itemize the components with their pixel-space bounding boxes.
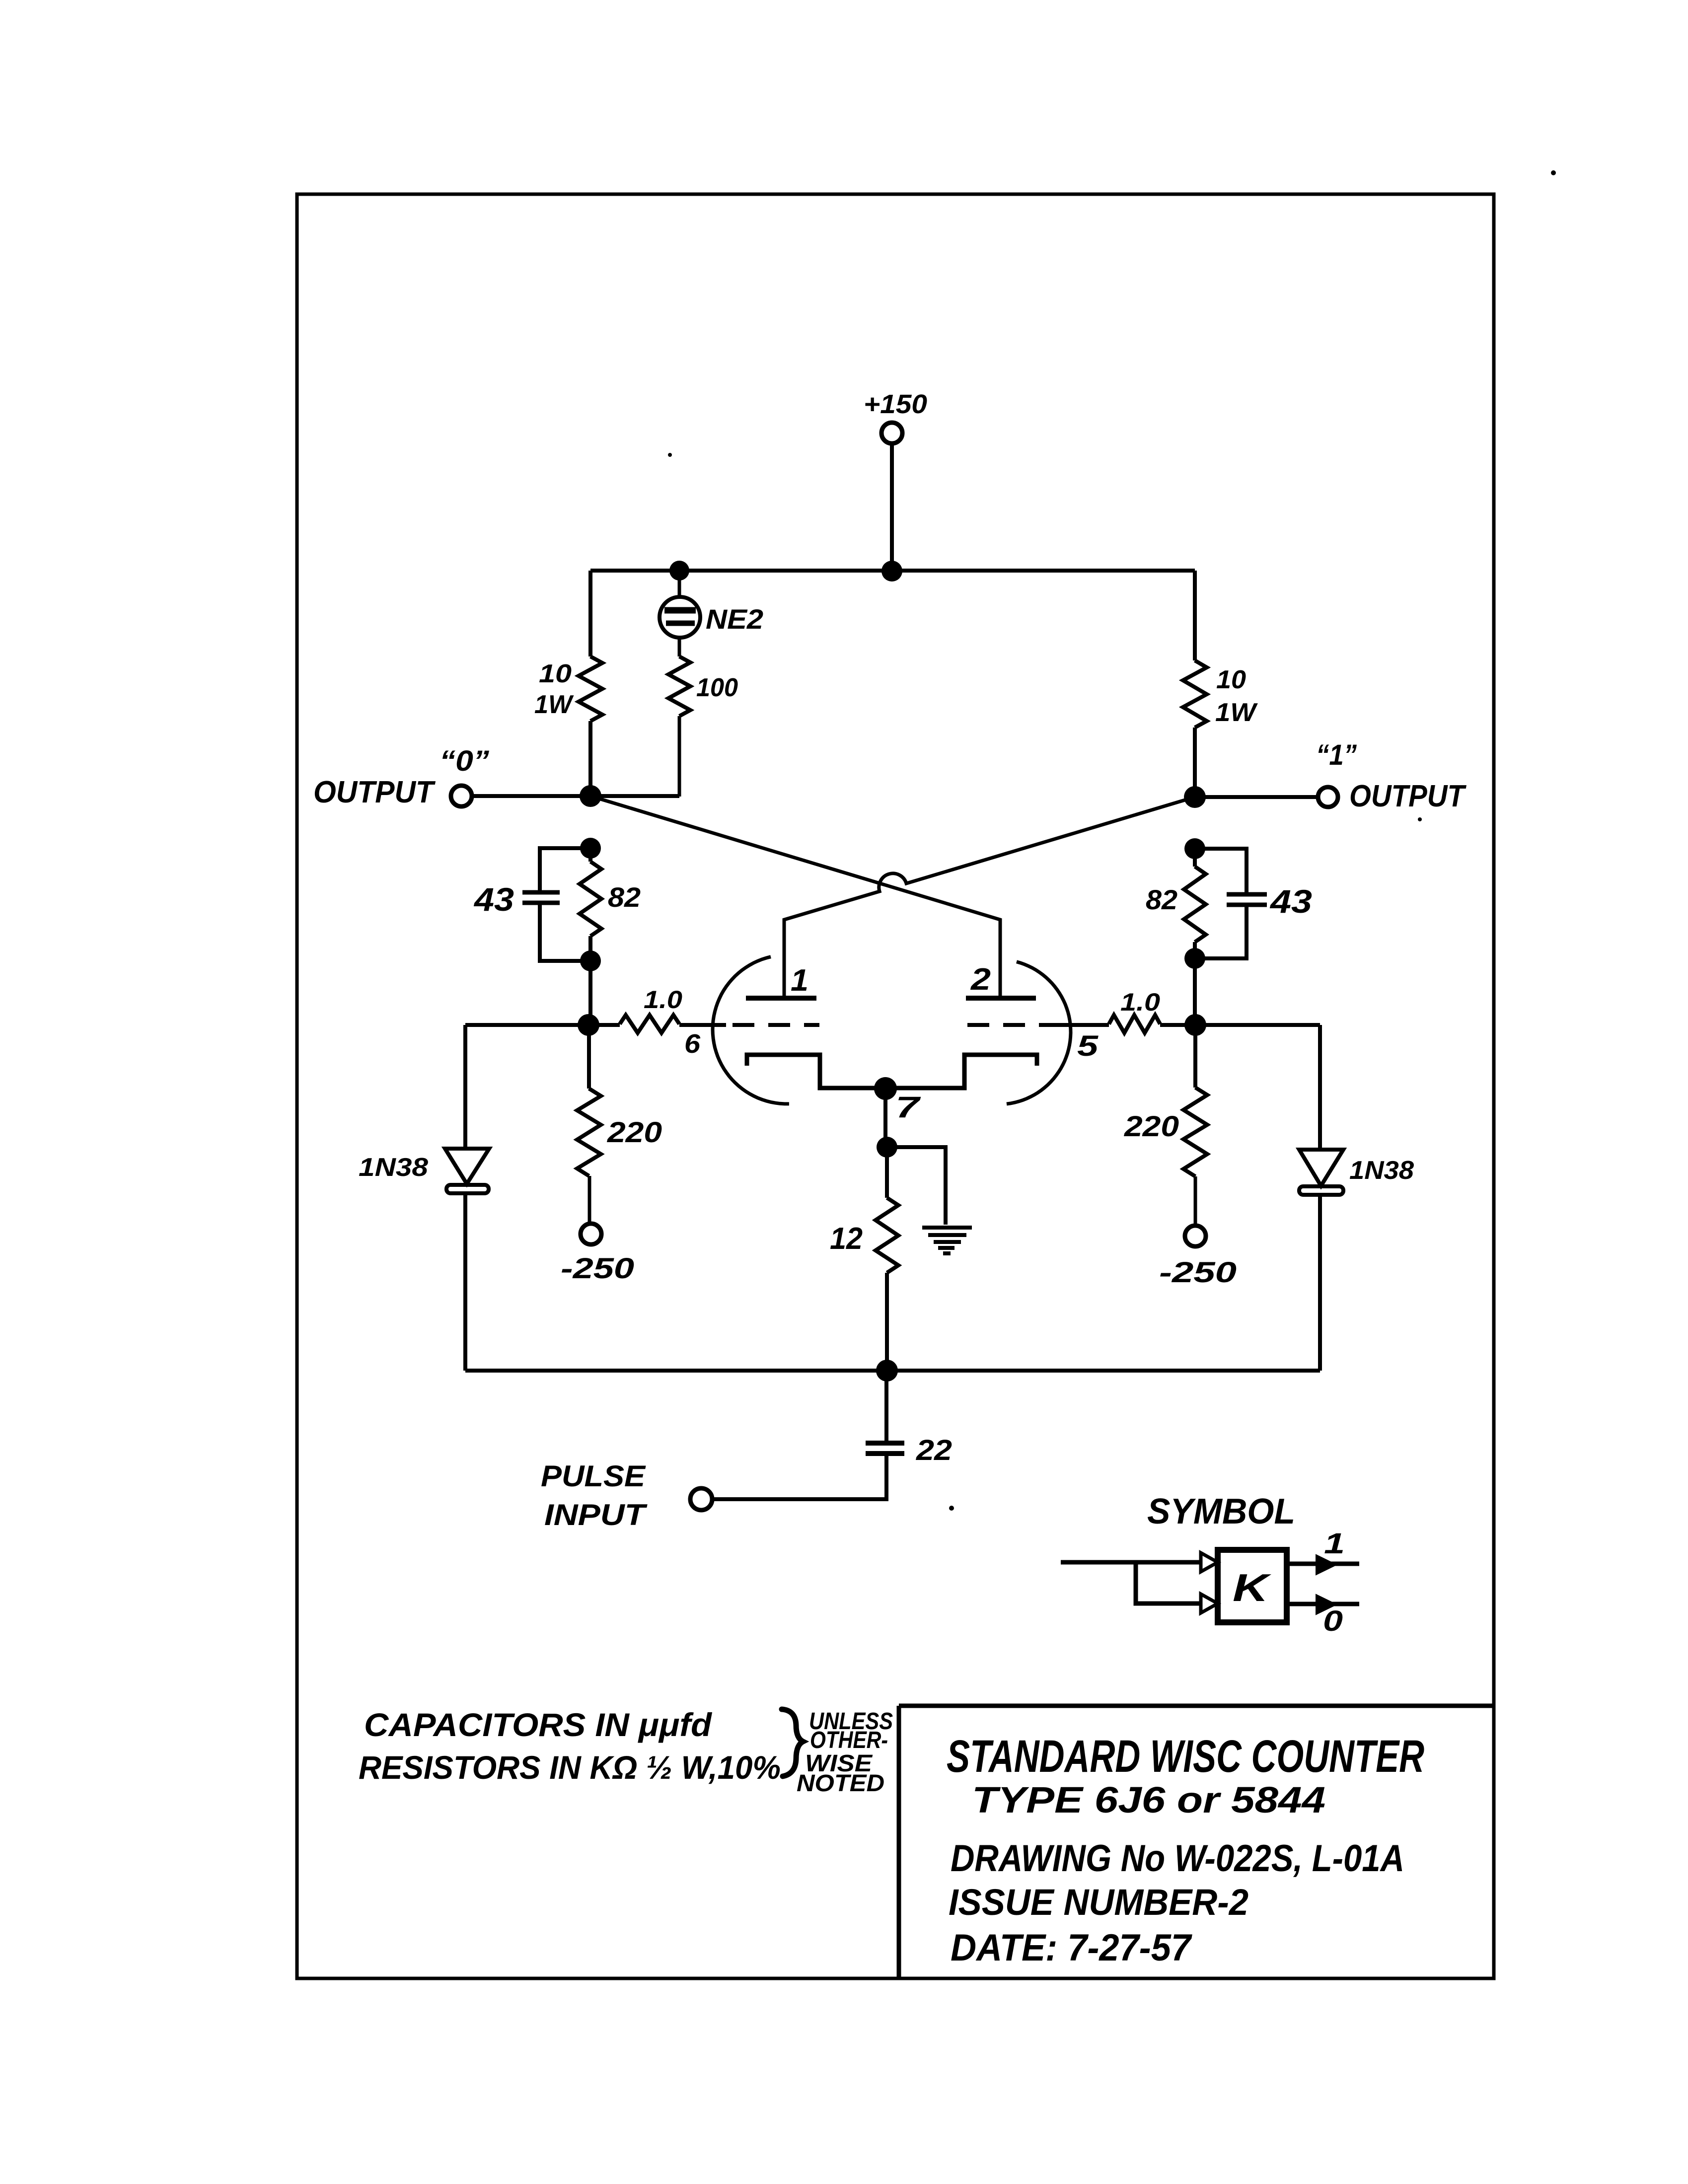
wire left grid stub (588, 1023, 620, 1027)
junction right divider bottom (1184, 948, 1205, 969)
wire NE2 lamp to resistor (678, 637, 681, 656)
svg-text:5: 5 (1077, 1030, 1099, 1062)
wire left 82 stub bottom (588, 936, 592, 961)
wire left 82 stub top (588, 848, 592, 862)
svg-text:NOTED: NOTED (797, 1770, 884, 1797)
ink speck 1 (1551, 170, 1556, 175)
wire left cap bracket (540, 848, 590, 961)
wire left 220 lead (587, 1025, 591, 1089)
svg-text:TYPE 6J6 or 5844: TYPE 6J6 or 5844 (972, 1779, 1325, 1820)
ink speck 4 (949, 1506, 954, 1511)
neon lamp NE2 (660, 597, 700, 638)
svg-text:DRAWING No W-022S, L-01A: DRAWING No W-022S, L-01A (951, 1837, 1404, 1880)
wire left grid lead to tube (679, 1023, 726, 1027)
wire cross-couple 0-to-plate2 (590, 796, 1000, 997)
svg-text:43: 43 (1269, 883, 1312, 920)
junction bottom bus (876, 1360, 898, 1382)
svg-text:OUTPUT: OUTPUT (313, 775, 436, 809)
resistor R 82 right (1184, 867, 1206, 942)
capacitor C 43 left (522, 892, 560, 903)
svg-text:SYMBOL: SYMBOL (1147, 1492, 1295, 1531)
terminal -250 left (581, 1224, 601, 1244)
junction +150 bus (881, 561, 902, 582)
svg-text:OUTPUT: OUTPUT (1349, 779, 1467, 813)
svg-text:82: 82 (1146, 884, 1177, 915)
wire right 82 stub top (1193, 849, 1197, 867)
wire right grid stub (1160, 1023, 1195, 1027)
svg-text:1.0: 1.0 (1120, 988, 1160, 1016)
wire left grid to diode (465, 1023, 588, 1027)
svg-text:100: 100 (696, 673, 738, 702)
svg-text:CAPACITORS IN μμfd: CAPACITORS IN μμfd (364, 1706, 713, 1743)
symbol output wire 0 (1287, 1602, 1359, 1606)
drawing border frame (297, 194, 1494, 1978)
wire 12 lead top (885, 1147, 889, 1198)
ink speck 2 (668, 453, 672, 457)
wire right rail upper (1193, 571, 1197, 660)
symbol arrow 1 (1316, 1555, 1336, 1575)
resistor R 220 right (1183, 1088, 1207, 1176)
symbol output wire 1 (1287, 1562, 1359, 1566)
terminal OUTPUT 0 (451, 786, 472, 806)
svg-text:“1”: “1” (1316, 739, 1357, 771)
wire left divider to grid (588, 961, 592, 1025)
symbol input triangle upper (1201, 1553, 1218, 1572)
wire left rail upper (588, 571, 592, 656)
svg-text:220: 220 (607, 1116, 662, 1149)
wire +150 lead (890, 443, 894, 571)
svg-text:1: 1 (1324, 1528, 1345, 1560)
svg-text:INPUT: INPUT (544, 1498, 648, 1531)
svg-text:10: 10 (1216, 665, 1246, 694)
terminal PULSE INPUT (690, 1488, 712, 1510)
svg-text:1W: 1W (534, 690, 574, 719)
svg-text:STANDARD WISC COUNTER: STANDARD WISC COUNTER (947, 1731, 1424, 1782)
svg-text:1W: 1W (1215, 698, 1258, 727)
plate 1 bar (746, 996, 816, 1001)
grid 2 dashed (967, 1023, 1054, 1027)
wire right rail to output node (1193, 728, 1197, 797)
plate 2 bar (966, 996, 1036, 1001)
resistor R 12 (876, 1198, 898, 1273)
svg-text:6: 6 (684, 1029, 701, 1059)
wire output 1 line (1195, 795, 1318, 799)
junction right divider top (1184, 838, 1205, 859)
junction left divider top (580, 838, 601, 859)
svg-text:“0”: “0” (440, 745, 489, 777)
wire right 220 lead (1193, 1025, 1197, 1088)
junction right grid node (1184, 1014, 1206, 1036)
wire to ground (887, 1147, 946, 1225)
svg-text:PULSE: PULSE (541, 1459, 646, 1493)
terminal +150 (881, 423, 902, 443)
wire pin7 down (883, 1089, 887, 1147)
wire top bus (590, 569, 1195, 573)
svg-text:220: 220 (1124, 1110, 1179, 1143)
resistor R 10 1W right (1183, 660, 1207, 728)
wire left rail to output node (588, 721, 592, 796)
svg-text:-250: -250 (1159, 1256, 1237, 1289)
svg-text:7: 7 (895, 1091, 921, 1124)
symbol input wire (1061, 1562, 1201, 1603)
junction cathode branch (877, 1137, 897, 1158)
wire right cap bracket (1195, 849, 1247, 958)
svg-text:43: 43 (473, 881, 514, 918)
junction NE2 top bus (669, 561, 689, 581)
junction left grid node (578, 1014, 599, 1036)
resistor R 100 (668, 656, 690, 716)
wire left -250 lead (588, 1176, 591, 1224)
symbol arrow 0 (1316, 1595, 1336, 1614)
wire pulse cap lead (884, 1371, 888, 1443)
resistor R 10 1W left (579, 656, 602, 721)
wire right divider to grid (1193, 958, 1197, 1025)
svg-text:1N38: 1N38 (1349, 1156, 1414, 1185)
wire 12 lead bottom (885, 1273, 889, 1371)
diode 1N38 left (445, 1025, 489, 1371)
resistor R 220 left (577, 1089, 601, 1176)
resistor R 82 left (580, 862, 601, 936)
cathode structure (747, 1055, 1037, 1088)
svg-text:10: 10 (539, 659, 572, 688)
wire cross-couple 1-to-plate1 with hop (784, 797, 1195, 997)
svg-text:K: K (1233, 1566, 1272, 1609)
svg-text:22: 22 (916, 1434, 952, 1466)
note brace (782, 1709, 803, 1776)
svg-text:DATE: 7-27-57: DATE: 7-27-57 (951, 1927, 1193, 1969)
wire right -250 lead (1194, 1176, 1197, 1226)
wire output 0 line (472, 794, 679, 798)
tube envelope right arc (1007, 962, 1071, 1104)
ground symbol (922, 1228, 972, 1253)
svg-text:0: 0 (1323, 1605, 1343, 1637)
tube envelope left arc (713, 957, 789, 1104)
svg-text:2: 2 (970, 962, 991, 997)
symbol box K (1218, 1550, 1287, 1622)
wire pulse input lead (713, 1454, 886, 1499)
junction cathode pin 7 (874, 1077, 897, 1100)
svg-text:1N38: 1N38 (359, 1153, 428, 1182)
svg-text:82: 82 (608, 881, 641, 913)
capacitor C 43 right (1227, 894, 1267, 905)
resistor R 1.0 left (620, 1015, 679, 1033)
junction output 1 node (1184, 786, 1206, 808)
wire right grid lead to tube (1048, 1023, 1109, 1027)
svg-text:+150: +150 (864, 389, 927, 419)
capacitor C 22 (866, 1443, 904, 1454)
wire bottom bus (465, 1369, 1320, 1373)
terminal OUTPUT 1 (1318, 787, 1338, 807)
diode 1N38 right (1299, 1025, 1343, 1371)
wire NE2 branch down (678, 716, 681, 797)
ink speck 3 (1418, 817, 1422, 821)
svg-text:NE2: NE2 (706, 603, 763, 635)
wire NE2 top lead (678, 571, 681, 599)
svg-text:1: 1 (791, 963, 808, 998)
svg-text:ISSUE NUMBER-2: ISSUE NUMBER-2 (949, 1882, 1248, 1923)
svg-text:OTHER-: OTHER- (810, 1727, 888, 1753)
grid 1 dashed (733, 1023, 819, 1027)
svg-text:RESISTORS IN KΩ ½ W,10%: RESISTORS IN KΩ ½ W,10% (359, 1749, 781, 1786)
svg-text:1.0: 1.0 (644, 986, 682, 1014)
wire right grid to diode (1195, 1023, 1320, 1027)
wire right 82 stub bottom (1193, 942, 1197, 958)
junction output 0 node (580, 785, 601, 807)
resistor R 1.0 right (1109, 1015, 1160, 1033)
symbol input triangle lower (1201, 1594, 1218, 1613)
svg-text:-250: -250 (561, 1252, 634, 1285)
svg-text:12: 12 (830, 1222, 863, 1256)
title block border (899, 1706, 1494, 1978)
terminal -250 right (1185, 1226, 1206, 1246)
junction left divider bottom (580, 950, 601, 971)
